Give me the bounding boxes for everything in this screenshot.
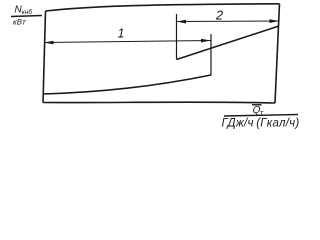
svg-text:1: 1 (118, 27, 125, 41)
frame bottom axis (43, 101, 275, 104)
curve lower branch (43, 75, 211, 94)
frame right line (275, 4, 280, 103)
dimension line 1 (44, 41, 211, 43)
frame left axis (43, 11, 46, 103)
svg-text:2: 2 (215, 8, 224, 23)
svg-text:ГДж/ч (Гкал/ч): ГДж/ч (Гкал/ч) (222, 118, 300, 130)
frame top line (46, 4, 280, 11)
curve upper branch (177, 26, 280, 60)
y-axis label fraction bar (11, 16, 42, 17)
extension line for dim 2 (176, 14, 178, 60)
x-axis label overbar on Q (252, 104, 262, 106)
x-axis label fraction bar (224, 115, 298, 117)
curve step vertical (210, 34, 212, 76)
dim 1 left arrow (44, 41, 54, 45)
dim 1 right arrow (201, 39, 211, 43)
svg-text:кВт: кВт (12, 18, 27, 27)
dim 2 left arrow (177, 20, 187, 24)
dim 2 right arrow (270, 19, 280, 23)
svg-text:Nкнб: Nкнб (15, 5, 33, 17)
dimension line 2 (177, 20, 280, 23)
